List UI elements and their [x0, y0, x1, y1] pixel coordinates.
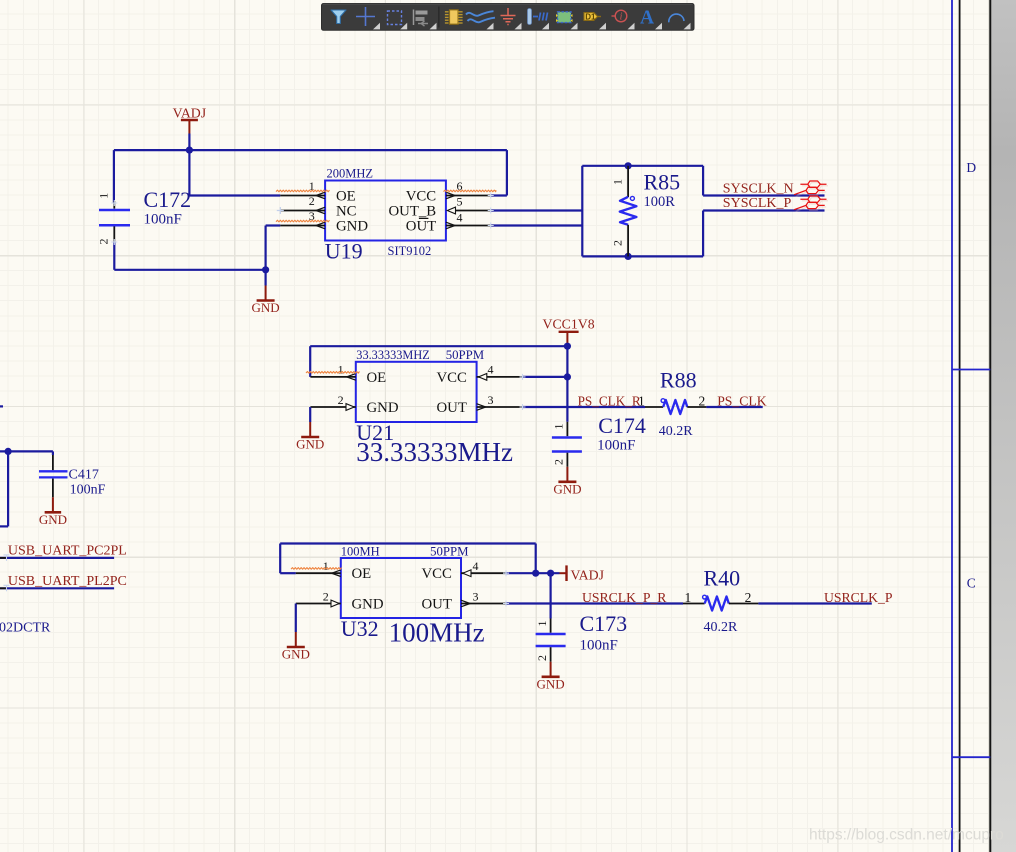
power port VADJ — [173, 105, 207, 133]
svg-text:R40: R40 — [704, 565, 741, 590]
svg-text:VCC: VCC — [421, 566, 452, 582]
toolbar icon pin — [528, 9, 548, 25]
diff pair mark P — [794, 196, 828, 211]
wire U21 gnd drop — [309, 407, 311, 422]
oscillator U21 — [310, 348, 522, 467]
svg-text:USB_UART_PL2PC: USB_UART_PL2PC — [8, 574, 127, 589]
toolbar icon selection rect — [388, 11, 402, 25]
wire to U19 pin3 — [266, 224, 281, 226]
wire left out — [0, 525, 8, 527]
wire C173 drop — [549, 573, 551, 618]
svg-text:2: 2 — [309, 194, 315, 208]
junction R85 bottom — [625, 253, 632, 260]
toolbar bar — [322, 4, 695, 31]
svg-text:100MH: 100MH — [341, 544, 380, 558]
wire top right drop — [506, 150, 508, 195]
svg-text:GND: GND — [537, 676, 565, 691]
svg-text:2: 2 — [745, 590, 752, 605]
svg-text:2: 2 — [97, 239, 111, 245]
svg-text:VADJ: VADJ — [173, 105, 207, 120]
svg-text:GND: GND — [252, 300, 280, 315]
svg-text:3: 3 — [473, 589, 479, 603]
wire U32 left riser — [279, 544, 281, 574]
wire VCC1V8 stub — [566, 345, 568, 347]
wire USB_UART_PL2PC — [0, 587, 114, 589]
wire C172 pin2 drop — [113, 242, 115, 270]
toolbar icon power port D1 — [584, 13, 601, 22]
svg-text:2: 2 — [323, 589, 329, 603]
svg-text:GND: GND — [39, 512, 67, 527]
sheet border inner black line — [959, 0, 961, 852]
diff pair mark N — [794, 181, 828, 196]
svg-text:VADJ: VADJ — [571, 567, 605, 582]
svg-text:5: 5 — [457, 195, 463, 209]
svg-text:1: 1 — [338, 363, 344, 377]
svg-text:C174: C174 — [598, 413, 646, 438]
svg-text:USB_UART_PC2PL: USB_UART_PC2PL — [8, 543, 127, 558]
wire C417 bend — [52, 451, 54, 455]
junction left — [5, 448, 12, 455]
ground symbol (U19) — [252, 286, 280, 316]
capacitor C172 — [97, 187, 192, 245]
svg-text:100R: 100R — [644, 194, 676, 210]
toolbar icon gnd — [501, 8, 516, 25]
svg-text:SYSCLK_P: SYSCLK_P — [723, 196, 792, 211]
pin1 compile squiggle — [276, 190, 330, 192]
svg-text:4: 4 — [488, 363, 494, 377]
svg-text:50PPM: 50PPM — [446, 348, 484, 362]
svg-text:C: C — [967, 576, 976, 591]
resistor R85 — [611, 166, 681, 257]
svg-text:50PPM: 50PPM — [430, 544, 468, 558]
svg-text:100MHz: 100MHz — [389, 618, 485, 648]
wire C172 pin1 riser — [113, 150, 115, 203]
wire OUT_B to R85 — [491, 209, 583, 211]
sheet border outer black line — [989, 0, 991, 852]
svg-text:2: 2 — [699, 393, 706, 408]
wire top bus — [114, 149, 507, 151]
wire U21 left riser — [309, 346, 311, 377]
wire R85 right bottom rise — [702, 211, 704, 257]
junction VCC pin — [564, 373, 571, 380]
toolbar dropdown triangles — [373, 23, 691, 30]
svg-text:02DCTR: 02DCTR — [0, 621, 51, 636]
svg-text:OUT: OUT — [406, 218, 436, 234]
toolbar icon arc — [669, 14, 684, 22]
svg-text:33.33333MHz: 33.33333MHz — [356, 437, 513, 467]
wire U32 right drop — [535, 544, 537, 574]
svg-text:GND: GND — [296, 437, 324, 452]
wire USB_UART_PC2PL — [0, 557, 114, 559]
junction R85 top — [625, 162, 632, 169]
svg-text:A: A — [640, 8, 654, 29]
toolbar icon chip — [445, 10, 463, 24]
wire USRCLK_P — [758, 602, 871, 604]
svg-text:1: 1 — [638, 393, 645, 408]
sheet border blue line — [951, 0, 953, 852]
toolbar icon wires — [466, 11, 495, 22]
svg-text:1: 1 — [323, 559, 329, 573]
junction GND/bottom — [262, 266, 269, 273]
svg-text:VCC1V8: VCC1V8 — [543, 316, 595, 331]
resistor R88 — [638, 367, 706, 439]
wire to U32 pin1 — [280, 572, 296, 574]
wire R85 bottom — [582, 255, 703, 257]
wire left drop — [7, 451, 9, 526]
svg-text:2: 2 — [551, 459, 565, 465]
power port VCC1V8 — [543, 316, 595, 345]
toolbar icon part — [556, 12, 573, 23]
wire VADJ to OE horizontal — [189, 194, 280, 196]
wire PS_CLK — [706, 406, 762, 408]
wire SYSCLK_N — [703, 194, 824, 196]
svg-text:1: 1 — [611, 179, 625, 185]
oscillator U32 — [296, 544, 506, 647]
capacitor C173 — [535, 611, 627, 662]
wire U21 top bus — [310, 345, 567, 347]
zone divider 2 — [952, 756, 990, 758]
pin hotspot marks — [111, 193, 525, 607]
svg-text:OE: OE — [367, 370, 387, 386]
wire VADJ stub — [188, 134, 190, 151]
svg-text:USRCLK_P: USRCLK_P — [824, 590, 893, 605]
svg-text:R85: R85 — [644, 170, 681, 195]
svg-text:40.2R: 40.2R — [659, 424, 694, 439]
wire SYSCLK_P — [703, 209, 824, 211]
svg-text:200MHZ: 200MHZ — [327, 167, 374, 181]
ground symbol (C417) — [39, 497, 67, 527]
wire stub left — [0, 405, 3, 407]
svg-text:GND: GND — [367, 400, 399, 416]
wire GND pin riser — [265, 226, 267, 270]
pin3 compile squiggle — [276, 220, 330, 222]
svg-text:100nF: 100nF — [597, 438, 635, 454]
svg-text:100nF: 100nF — [580, 638, 618, 654]
svg-text:D: D — [966, 160, 976, 175]
svg-text:2: 2 — [338, 393, 344, 407]
toolbar icon cross cursor — [356, 7, 375, 26]
svg-text:SYSCLK_N: SYSCLK_N — [723, 181, 794, 196]
pin6 compile squiggle — [444, 190, 497, 192]
svg-text:4: 4 — [473, 559, 479, 573]
svg-text:3: 3 — [488, 393, 494, 407]
svg-text:2: 2 — [611, 240, 625, 246]
svg-text:GND: GND — [336, 218, 368, 234]
ground symbol (U32) — [282, 632, 310, 662]
wire left in — [0, 450, 53, 452]
svg-text:OE: OE — [352, 566, 372, 582]
svg-text:100nF: 100nF — [70, 483, 106, 498]
ground symbol (C174) — [553, 467, 581, 497]
wire U32 VCC to VADJ — [506, 572, 560, 574]
oscillator U19 — [280, 167, 490, 264]
svg-text:2: 2 — [535, 655, 549, 661]
svg-text:GND: GND — [282, 647, 310, 662]
svg-text:1: 1 — [684, 590, 691, 605]
svg-text:33.33333MHZ: 33.33333MHZ — [356, 348, 429, 362]
wire bottom return — [114, 269, 265, 271]
port tip PL2PC — [0, 587, 7, 589]
NC pin hotspot — [277, 207, 284, 214]
wire U32 top bus — [280, 542, 536, 544]
wire VCC drop — [566, 346, 568, 377]
ground symbol (U21) — [296, 422, 324, 452]
U32 pin1 squiggle — [291, 568, 342, 570]
svg-text:U19: U19 — [325, 239, 363, 264]
toolbar icon align — [414, 10, 429, 27]
ground symbol (C173) — [537, 662, 565, 692]
svg-text:OUT_B: OUT_B — [389, 203, 437, 219]
toolbar icon no-erc — [612, 10, 627, 23]
wire R85 top — [582, 165, 703, 167]
svg-text:4: 4 — [457, 211, 463, 225]
svg-text:C172: C172 — [144, 187, 192, 212]
wire pin6 to top — [491, 194, 507, 196]
port tip PC2PL — [0, 557, 7, 559]
svg-text:40.2R: 40.2R — [704, 620, 739, 635]
svg-text:1: 1 — [551, 424, 565, 430]
svg-text:GND: GND — [553, 481, 581, 496]
wire junction to gnd — [265, 270, 267, 286]
capacitor C174 — [551, 413, 646, 467]
svg-text:U32: U32 — [341, 616, 379, 641]
junction top-bus drop — [532, 570, 539, 577]
wire R85 left vertical — [581, 166, 583, 257]
svg-text:OUT: OUT — [436, 400, 466, 416]
zone divider 1 — [952, 369, 990, 371]
wire R85 right top drop — [702, 166, 704, 196]
wire C174 drop — [566, 377, 568, 422]
sheet margin gray area — [991, 0, 1016, 852]
svg-text:1: 1 — [535, 621, 549, 627]
U21 pin1 squiggle — [306, 372, 360, 374]
wire OUT to R85 — [491, 224, 583, 226]
svg-text:OUT: OUT — [421, 597, 451, 613]
svg-text:100nF: 100nF — [144, 212, 182, 228]
capacitor C417 — [39, 455, 106, 498]
junction VCC1V8/top — [564, 343, 571, 350]
svg-text:i: i — [620, 12, 623, 23]
wire VCC pin to junction — [523, 376, 568, 378]
svg-text:OE: OE — [336, 188, 356, 204]
svg-text:VCC: VCC — [406, 188, 437, 204]
svg-text:R88: R88 — [660, 367, 697, 392]
power port VADJ (right) — [560, 565, 605, 582]
toolbar separator — [438, 7, 440, 28]
svg-text:VCC: VCC — [436, 370, 467, 386]
toolbar icon filter — [331, 10, 346, 24]
svg-text:SIT9102: SIT9102 — [388, 244, 432, 258]
svg-text:USRCLK_P_R: USRCLK_P_R — [582, 590, 667, 605]
svg-text:https://blog.csdn.net/mcupro: https://blog.csdn.net/mcupro — [809, 827, 1004, 844]
wire U32 OUT — [506, 602, 683, 604]
svg-text:PS_CLK: PS_CLK — [717, 393, 767, 408]
svg-text:GND: GND — [352, 597, 384, 613]
junction C173 tap — [547, 570, 554, 577]
svg-text:C417: C417 — [69, 467, 99, 482]
resistor R40 — [683, 565, 758, 635]
wire VADJ to OE vertical — [188, 150, 190, 195]
svg-text:D1: D1 — [585, 13, 596, 22]
svg-text:C173: C173 — [580, 611, 628, 636]
wire U21 OUT — [523, 406, 646, 408]
svg-text:1: 1 — [97, 193, 111, 199]
junction VADJ/top — [186, 147, 193, 154]
wire U32 gnd drop — [295, 604, 297, 633]
svg-text:NC: NC — [336, 203, 357, 219]
svg-text:PS_CLK_R: PS_CLK_R — [578, 393, 641, 408]
